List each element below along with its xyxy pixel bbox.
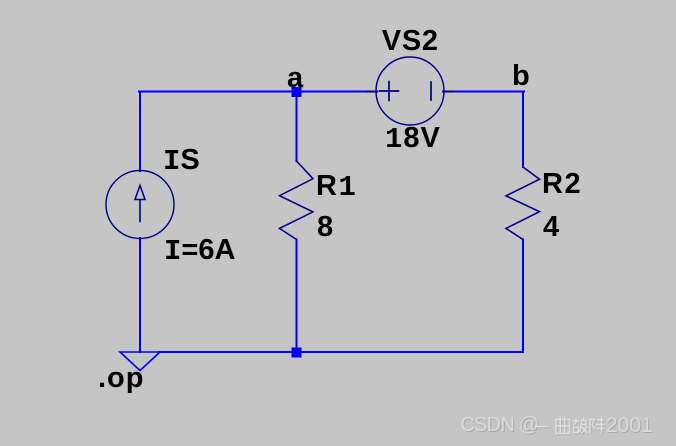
VS2 minus bar — [430, 82, 432, 100]
voltage source VS2 circle — [376, 57, 444, 125]
resistor R1 zigzag — [280, 161, 314, 240]
label VS2 — [382, 27, 439, 55]
label R2 — [542, 170, 582, 198]
wire top-right horizontal — [443, 91, 524, 93]
ground — [120, 352, 160, 371]
bottom junction square — [292, 348, 302, 358]
VS2 plus sign — [380, 82, 399, 101]
current source IS circle — [106, 171, 174, 239]
label IS — [163, 146, 200, 176]
spice directive .op — [98, 364, 145, 392]
current source IS arrow — [135, 186, 145, 222]
wire R2 bottom to bottom rail — [522, 240, 524, 353]
label 18V value — [385, 124, 441, 154]
node a junction square — [292, 87, 302, 97]
resistor R2 zigzag — [506, 167, 540, 240]
wire top-left horizontal — [139, 91, 377, 93]
label R1 value 8 — [317, 213, 333, 241]
wire IS bottom to ground — [139, 238, 141, 352]
voltage source VS2 leads — [366, 91, 454, 93]
wire bottom rail — [160, 351, 524, 353]
wire b corner vertical to R2 top — [522, 92, 524, 168]
wire node a to R1 top — [296, 92, 298, 161]
wire left vertical to IS top — [139, 92, 141, 172]
label R1 — [316, 172, 357, 202]
watermark — [461, 415, 539, 435]
label I=6A value — [164, 236, 235, 266]
wire R1 bottom to bottom rail — [296, 240, 298, 353]
label R2 value 4 — [543, 213, 559, 241]
node label b — [512, 62, 530, 90]
node label a — [287, 64, 303, 92]
